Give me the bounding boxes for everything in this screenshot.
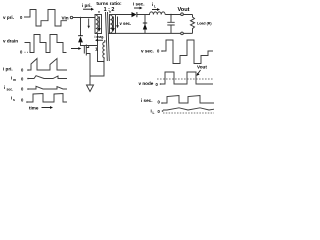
svg-text:Vin: Vin: [62, 15, 69, 20]
svg-text:v sec.: v sec.: [120, 21, 132, 26]
svg-text:v drain: v drain: [3, 39, 18, 44]
svg-text:L: L: [154, 5, 156, 9]
svg-text:turns ratio:: turns ratio:: [96, 1, 122, 7]
svg-text:i pri.: i pri.: [3, 67, 13, 72]
svg-text:i sec.: i sec.: [141, 98, 153, 103]
svg-text:s: s: [13, 98, 15, 102]
svg-text:Vout: Vout: [197, 65, 207, 70]
svg-text:Vout: Vout: [177, 7, 189, 13]
svg-text:i: i: [4, 85, 5, 90]
svg-text:v sec.: v sec.: [141, 49, 154, 54]
svg-text:time: time: [29, 105, 39, 110]
svg-text:v node: v node: [139, 81, 154, 86]
svg-text:1: 1: [95, 47, 98, 52]
svg-text:m: m: [13, 78, 16, 82]
svg-text:i pri.: i pri.: [82, 3, 92, 8]
svg-text:L: L: [153, 111, 155, 115]
svg-text:v pri.: v pri.: [3, 15, 14, 20]
svg-text:i mag.: i mag.: [95, 35, 105, 39]
svg-text:i sec.: i sec.: [133, 2, 145, 7]
svg-text:Load (R): Load (R): [197, 22, 212, 26]
svg-text:sec.: sec.: [7, 88, 14, 92]
